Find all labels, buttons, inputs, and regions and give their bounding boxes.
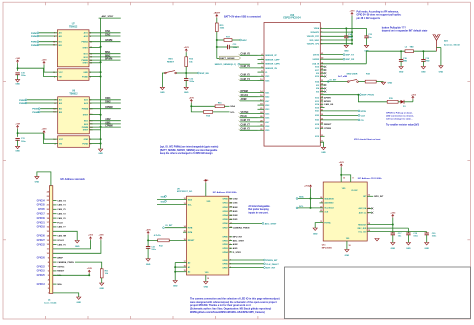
U11 SCL pin: [298, 207, 324, 209]
ground wire from pin 1: [53, 293, 79, 297]
svg-text:13: 13: [343, 178, 345, 180]
svg-text:GND: GND: [344, 51, 349, 53]
junction ESP_PROG: [357, 94, 359, 96]
power +5V0 for U9: [205, 180, 207, 183]
svg-text:PCLK: PCLK: [241, 116, 248, 118]
ground at bottom of vertical: [100, 148, 102, 150]
ground under C15: [364, 45, 368, 47]
capacitor C12 100n: [184, 78, 188, 80]
svg-text:IO_INT: IO_INT: [165, 225, 173, 227]
svg-text:LED connection as shown,: LED connection as shown,: [386, 115, 414, 118]
svg-text:GPIO21: GPIO21: [37, 222, 46, 224]
svg-text:CPWM: CPWM: [324, 128, 331, 130]
svg-text:IO26: IO26: [265, 80, 269, 82]
wire +5V0 to VCC U6: [44, 134, 58, 139]
svg-text:23: 23: [321, 93, 323, 95]
svg-text:GND: GND: [173, 286, 178, 288]
svg-text:GPA5: GPA5: [222, 218, 228, 221]
svg-text:+3V3: +3V3: [184, 47, 190, 49]
svg-text:BATT=3V when USB is connected: BATT=3V when USB is connected: [224, 16, 261, 19]
svg-text:AD0/MISO: AD0/MISO: [324, 202, 334, 205]
svg-text:GND: GND: [345, 255, 350, 257]
svg-text:CLK: CLK: [361, 115, 366, 117]
svg-text:APWR: APWR: [324, 97, 331, 100]
svg-text:18: 18: [321, 97, 323, 99]
svg-text:I2C Address 0100 000b: I2C Address 0100 000b: [213, 191, 237, 194]
wire node down to C12: [185, 73, 187, 79]
svg-text:CAM_Y5: CAM_Y5: [57, 208, 66, 211]
svg-text:AUX_CL: AUX_CL: [359, 212, 367, 215]
power +3V3 rail for ESP32: [351, 13, 353, 16]
svg-text:IO36: IO36: [265, 118, 269, 120]
svg-text:GPA6: GPA6: [222, 222, 228, 225]
svg-text:SCL: SCL: [230, 112, 235, 114]
svg-text:10: 10: [368, 208, 370, 210]
inductor L3 TBD: [405, 50, 414, 53]
svg-text:8: 8: [353, 178, 354, 180]
antenna shield to ground: [437, 47, 441, 49]
svg-text:36: 36: [321, 119, 323, 121]
svg-text:27: 27: [321, 65, 323, 67]
svg-text:IO16: IO16: [315, 67, 319, 69]
svg-text:IO17: IO17: [315, 70, 319, 72]
svg-text:+5V0: +5V0: [146, 230, 152, 232]
ground U11 bottom gnd symbol near box: [375, 239, 379, 241]
U11 AD0 pin: [320, 202, 324, 204]
svg-text:MCP23017_SO: MCP23017_SO: [177, 191, 193, 193]
svg-text:+3V3: +3V3: [339, 162, 345, 164]
svg-text:IO21: IO21: [265, 92, 269, 94]
svg-text:17: 17: [184, 261, 186, 263]
svg-text:ABC_STBY: ABC_STBY: [233, 239, 245, 242]
svg-text:+3V3: +3V3: [411, 94, 417, 96]
ESP32 IO_INT pin: [320, 81, 347, 83]
svg-text:DIN1: DIN1: [105, 98, 111, 100]
svg-text:IO25: IO25: [265, 76, 269, 78]
U9 INTB INTA pins: [165, 227, 187, 229]
svg-text:TBD: TBD: [425, 61, 430, 63]
svg-text:25: 25: [321, 80, 323, 82]
svg-text:DPWM: DPWM: [241, 91, 248, 93]
resistor R15 100k: [216, 18, 218, 23]
svg-text:U0TXD: U0TXD: [313, 54, 320, 56]
svg-text:GND: GND: [35, 182, 40, 184]
power +3V3 at REGOUT: [392, 215, 394, 218]
ESP32 left sensor pin group: [258, 54, 265, 56]
power +VM for U6: [17, 126, 19, 129]
svg-text:ESP_TX: ESP_TX: [346, 55, 355, 57]
wire GPB7 to EXT_INT label: [229, 267, 264, 269]
svg-text:CS: CS: [361, 120, 365, 122]
junction C18: [400, 50, 402, 52]
ESP32 TX RX pins: [320, 54, 343, 56]
svg-text:GPIO39: GPIO39: [37, 218, 46, 220]
wire ABC_STBY net vertical: [99, 17, 121, 19]
svg-text:depend on io-expander INT defa: depend on io-expander INT default state: [382, 30, 428, 33]
svg-text:+VM: +VM: [15, 58, 20, 60]
U11 nCS pin: [320, 211, 324, 213]
svg-text:GND: GND: [421, 72, 426, 74]
svg-text:BIN2: BIN2: [233, 207, 239, 209]
svg-text:VM: VM: [59, 76, 62, 78]
svg-text:GPB4: GPB4: [222, 251, 228, 254]
capacitor C19 TBD: [421, 59, 425, 61]
svg-text:38: 38: [321, 127, 323, 129]
svg-text:41: 41: [321, 52, 323, 55]
svg-text:AIN1: AIN1: [233, 247, 239, 250]
svg-text:ADC: ADC: [242, 39, 247, 42]
svg-text:24: 24: [320, 196, 322, 199]
svg-text:4.7k/1k: 4.7k/1k: [154, 234, 162, 237]
svg-text:30: 30: [321, 75, 323, 77]
svg-text:GND: GND: [388, 83, 393, 85]
svg-text:IO19: IO19: [315, 136, 319, 138]
svg-text:XCLK1: XCLK1: [241, 95, 249, 97]
svg-text:13: 13: [53, 45, 55, 47]
svg-text:BATT_SENSE: BATT_SENSE: [220, 57, 235, 60]
svg-text:STBY: STBY: [82, 47, 88, 49]
svg-text:CAM_Y2: CAM_Y2: [241, 128, 251, 131]
svg-text:CVL_100: CVL_100: [358, 231, 366, 233]
svg-text:Antenna_Shield: Antenna_Shield: [444, 43, 460, 46]
svg-text:IO39: IO39: [265, 130, 269, 132]
svg-text:IO2: IO2: [316, 85, 319, 87]
power +3V3 to connector pin 11: [90, 237, 92, 240]
svg-text:MPU-6050: MPU-6050: [322, 248, 333, 250]
capacitor C15 10u: [366, 28, 368, 36]
wire node to ESP_EN label: [186, 72, 197, 74]
U9 address pins A0 A1 A2: [175, 262, 186, 264]
svg-text:GND: GND: [321, 152, 326, 154]
U11 INT pin to MPU_INT: [367, 195, 373, 197]
svg-text:CIN2: CIN2: [105, 34, 111, 36]
svg-text:I2C Address xxxxxxxb: I2C Address xxxxxxxb: [61, 178, 86, 181]
LED D1: [401, 100, 405, 104]
svg-text:FSYNC: FSYNC: [324, 222, 331, 224]
camera connector J4 body: [49, 186, 52, 294]
svg-text:100n: 100n: [348, 37, 353, 39]
svg-text:inputs in one port.: inputs in one port.: [248, 211, 268, 214]
U11 FSYNC pin to ground: [315, 223, 323, 228]
U9 SDA SCL pins: [157, 199, 187, 201]
svg-text:GPA2: GPA2: [222, 206, 228, 209]
svg-text:EXT_INT: EXT_INT: [266, 268, 276, 270]
svg-text:BIN1: BIN1: [233, 211, 239, 213]
svg-text:GPIO26: GPIO26: [37, 258, 46, 260]
svg-text:15: 15: [184, 270, 186, 272]
svg-text:VDD_SDIO: VDD_SDIO: [309, 40, 319, 42]
svg-text:SoT, oSB: SoT, oSB: [338, 76, 348, 78]
wire R13 to node: [185, 67, 187, 74]
svg-text:20: 20: [321, 100, 323, 102]
svg-text:PGND: PGND: [82, 143, 88, 145]
svg-text:GPIO25: GPIO25: [37, 275, 46, 277]
svg-text:GPIO0 is Pull-up on boot,: GPIO0 is Pull-up on boot,: [386, 112, 413, 115]
svg-text:19: 19: [207, 278, 209, 280]
power +5V0 pullup source: [190, 100, 192, 103]
svg-text:D_STBY: D_STBY: [233, 252, 242, 254]
svg-text:18: 18: [184, 239, 186, 241]
svg-text:[spi, IO_INT, PWMx] are interc: [spi, IO_INT, PWMx] are interchangeable …: [160, 146, 219, 149]
svg-text:SDA: SDA: [299, 196, 304, 199]
svg-text:Pull mode, According to API re: Pull mode, According to API reference,: [357, 11, 400, 14]
svg-text:SERVO_SENSE[0..1]: SERVO_SENSE[0..1]: [215, 64, 237, 66]
svg-text:IO32: IO32: [265, 105, 269, 107]
wire cap to gnd stub: [229, 46, 239, 48]
svg-text:24: 24: [321, 83, 323, 86]
U9 RESET pin with R12: [169, 239, 186, 241]
svg-text:CAM_Y4: CAM_Y4: [241, 78, 251, 81]
ground under C12: [184, 87, 188, 89]
svg-text:12: 12: [368, 195, 370, 197]
power +VM for U7: [17, 60, 19, 63]
resistor R11 10k pulldown: [100, 269, 103, 278]
motor driver U6 power body: [58, 136, 90, 148]
wire batt sense: [217, 58, 220, 60]
svg-text:GPIO18: GPIO18: [37, 227, 46, 229]
resistor R16 1k: [215, 105, 224, 108]
U11 VSS pin to ground: [346, 241, 348, 250]
power +1V8 pullup on SCL: [88, 270, 90, 273]
svg-text:keep the others unchanged to f: keep the others unchanged to fit M5CAM d…: [160, 152, 213, 155]
svg-text:CAMERA_PWDN: CAMERA_PWDN: [57, 261, 74, 264]
svg-text:GND: GND: [184, 92, 189, 94]
svg-text:GPB2: GPB2: [222, 244, 228, 246]
svg-text:28: 28: [321, 69, 323, 71]
svg-text:MTDI: MTDI: [361, 111, 367, 113]
svg-text:Try smaller resistor value(1k?: Try smaller resistor value(1k?): [386, 124, 419, 127]
node ESP_EN junction: [185, 72, 187, 74]
ground under C20: [425, 243, 429, 245]
svg-text:I2C Address 1101 000b: I2C Address 1101 000b: [358, 177, 382, 180]
ground under C19rf: [421, 67, 425, 69]
svg-text:VCC: VCC: [59, 72, 64, 74]
svg-text:IO33: IO33: [265, 109, 269, 111]
svg-text:ESP32-PICO-D4: ESP32-PICO-D4: [283, 17, 301, 20]
svg-text:GND: GND: [15, 150, 20, 152]
svg-text:GPIO22: GPIO22: [37, 266, 46, 268]
svg-text:CAM_HR: CAM_HR: [57, 235, 66, 238]
power +3V3 SDA SCL pullups: [310, 185, 312, 188]
svg-text:IO22: IO22: [315, 115, 319, 117]
svg-text:IO21: IO21: [315, 111, 319, 113]
svg-text:GPIO35: GPIO35: [37, 205, 46, 207]
power +3V3 for LED: [412, 96, 414, 99]
wire address pins to ground: [174, 263, 176, 281]
ground at connector top: [37, 172, 51, 186]
svg-text:GND: GND: [99, 288, 104, 290]
svg-text:U10: U10: [290, 15, 295, 17]
motor driver U7 power body: [57, 69, 89, 81]
svg-text:+3V3: +3V3: [390, 213, 396, 215]
svg-text:IO18: IO18: [315, 124, 319, 126]
wire GPA6 to ADC_STBY label: [229, 222, 262, 224]
svg-text:IO12: IO12: [315, 98, 319, 100]
svg-text:7: 7: [368, 212, 369, 214]
svg-text:CAM_Y3: CAM_Y3: [241, 119, 251, 122]
svg-text:DIN2: DIN2: [233, 215, 239, 217]
wire L3 to antenna: [414, 50, 437, 52]
svg-text:CLK_FAULT: CLK_FAULT: [266, 263, 279, 266]
svg-text:100n: 100n: [189, 81, 194, 83]
svg-text:MPU_INT: MPU_INT: [233, 237, 243, 239]
svg-text:17: 17: [321, 103, 323, 105]
power +1V8 to connector pin 10: [100, 237, 102, 240]
svg-text:PWMA: PWMA: [82, 108, 89, 111]
motor driver U7 main body: [57, 30, 89, 67]
svg-text:SENSOR_VP: SENSOR_VP: [265, 55, 277, 57]
svg-text:23: 23: [320, 206, 322, 208]
power +5V0 to R12: [147, 232, 149, 235]
junctions on STBY/GND vertical: [100, 46, 102, 48]
resistor R18: [365, 80, 376, 83]
svg-text:GND: GND: [399, 72, 404, 74]
svg-text:RESET: RESET: [57, 271, 65, 273]
svg-text:AIN2: AIN2: [105, 118, 111, 121]
svg-text:RESET: RESET: [324, 124, 332, 126]
svg-text:100n: 100n: [432, 236, 437, 238]
svg-text:[BATT_SENSE, SERVO_SENSE] are: [BATT_SENSE, SERVO_SENSE] are interchang…: [160, 149, 218, 152]
svg-text:APWM: APWM: [105, 39, 112, 42]
wire node B to C13 cap: [217, 46, 228, 48]
svg-text:GND: GND: [204, 287, 209, 289]
svg-text:GPIO32: GPIO32: [37, 244, 46, 246]
svg-text:CIN1: CIN1: [105, 31, 111, 33]
svg-text:IO5: IO5: [316, 91, 319, 93]
svg-text:11: 11: [321, 140, 323, 142]
junction battery divider B: [216, 46, 218, 48]
svg-text:GPA1: GPA1: [222, 202, 228, 205]
svg-text:GND: GND: [84, 139, 89, 141]
svg-text:CAM_Y7: CAM_Y7: [57, 226, 66, 229]
svg-text:XCLK1: XCLK1: [57, 240, 65, 242]
svg-text:100n: 100n: [151, 249, 156, 251]
svg-text:8: 8: [54, 103, 55, 105]
svg-text:IO19: IO19: [315, 128, 319, 130]
svg-text:GND: GND: [391, 248, 396, 250]
svg-text:+3V3: +3V3: [304, 186, 310, 188]
empty sheet title block: [285, 267, 471, 319]
svg-text:13: 13: [184, 203, 186, 205]
svg-text:INTB: INTB: [188, 228, 193, 230]
svg-text:U0RXD: U0RXD: [313, 59, 320, 61]
svg-text:CAM_Y5: CAM_Y5: [241, 74, 251, 77]
svg-text:AIN2: AIN2: [233, 243, 239, 246]
svg-text:12: 12: [53, 109, 55, 111]
svg-text:SENSOR_VN: SENSOR_VN: [265, 68, 277, 70]
svg-text:18: 18: [349, 245, 351, 247]
svg-text:SENSOR_CAPN: SENSOR_CAPN: [265, 63, 280, 66]
svg-text:SW2 USER: SW2 USER: [347, 73, 358, 75]
io expander U9 body: [187, 196, 229, 275]
svg-text:IO37: IO37: [265, 122, 269, 124]
svg-text:+5V0: +5V0: [189, 97, 195, 99]
capacitor C11 100n: [15, 138, 19, 140]
global label ESP_PROG: [360, 94, 362, 96]
svg-text:PWMB: PWMB: [82, 127, 89, 129]
wire +VM to VM pin U7: [17, 63, 19, 71]
svg-text:CAM_HS: CAM_HS: [324, 103, 334, 106]
svg-text:IO22: IO22: [265, 97, 269, 99]
svg-text:GPA3: GPA3: [222, 210, 228, 213]
svg-text:PWMA: PWMA: [81, 41, 88, 44]
svg-text:PWDN_INT: PWDN_INT: [266, 260, 278, 262]
svg-text:CAMERA_PWDN: CAMERA_PWDN: [233, 226, 250, 229]
U11 SDA pin: [298, 198, 324, 200]
svg-text:GPA4: GPA4: [222, 214, 228, 217]
svg-text:SDA: SDA: [230, 105, 235, 108]
resistor R19: [387, 100, 398, 103]
wire R15 to node: [216, 32, 218, 59]
ESP32 right nc stub pins: [320, 66, 324, 68]
svg-text:STBY: STBY: [83, 130, 89, 132]
svg-text:VDD3P3_CPU: VDD3P3_CPU: [307, 44, 320, 46]
svg-text:PWMB: PWMB: [81, 60, 88, 62]
svg-text:DPWM: DPWM: [105, 107, 112, 109]
U6 left input pins with wires: [27, 99, 58, 101]
ESP32 right stub io last: [320, 135, 324, 137]
ground under C10: [16, 80, 20, 82]
svg-text:GND: GND: [83, 72, 88, 74]
svg-text:VM: VM: [59, 143, 62, 145]
svg-text:VDD3P3_RTC: VDD3P3_RTC: [307, 36, 320, 38]
svg-text:GPA7: GPA7: [222, 226, 228, 229]
svg-text:ESP_EN: ESP_EN: [200, 73, 209, 75]
svg-text:GND: GND: [424, 248, 429, 250]
svg-text:CAM_Y2: CAM_Y2: [57, 213, 66, 216]
svg-text:GND: GND: [439, 72, 444, 74]
junction pullup node: [190, 105, 192, 107]
svg-text:22: 22: [320, 210, 322, 212]
svg-text:ESP_RX: ESP_RX: [346, 59, 355, 61]
svg-text:pin 28 1 322 supports: pin 28 1 322 supports: [357, 17, 381, 20]
svg-text:GND: GND: [76, 302, 81, 304]
svg-text:GPIO36: GPIO36: [37, 236, 46, 238]
wire R11 to ground: [101, 278, 103, 283]
svg-text:+3V3: +3V3: [88, 235, 94, 237]
svg-text:16: 16: [184, 266, 186, 268]
svg-text:GND: GND: [160, 92, 165, 94]
svg-text:VSYNC: VSYNC: [57, 266, 65, 268]
svg-text:IO23: IO23: [315, 120, 319, 122]
ESP32 U10 body: [264, 23, 320, 147]
svg-text:IO10: IO10: [315, 76, 319, 78]
capacitor C14 100n: [345, 28, 347, 36]
svg-text:CIN1: CIN1: [233, 203, 239, 205]
svg-text:GND: GND: [406, 248, 411, 250]
ESP32 right stub pins mid: [320, 84, 324, 86]
wire R18 to ground: [376, 81, 383, 83]
svg-text:SDA/MOSI: SDA/MOSI: [324, 197, 334, 200]
wire R16 to SDA label: [224, 105, 229, 107]
svg-text:IO35: IO35: [265, 113, 269, 115]
svg-text:100n: 100n: [413, 236, 418, 238]
svg-text:GPB5: GPB5: [222, 260, 228, 262]
svg-text:VDDA3P3: VDDA3P3: [310, 31, 319, 34]
svg-text:GPB0: GPB0: [222, 237, 228, 239]
svg-text:AREF: AREF: [57, 257, 63, 260]
svg-text:+1V8: +1V8: [98, 235, 104, 237]
ground under C19b: [406, 243, 410, 245]
ESP32 ground pin: [320, 142, 323, 147]
svg-text:BPWM: BPWM: [105, 59, 112, 61]
svg-text:+1V8: +1V8: [87, 268, 93, 270]
power +5V0 for U6 VCC: [43, 131, 45, 134]
svg-text:BIN2: BIN2: [105, 55, 111, 57]
svg-text:100n: 100n: [21, 141, 26, 143]
svg-text:+BATT: +BATT: [213, 11, 220, 14]
svg-text:35: 35: [321, 123, 323, 125]
